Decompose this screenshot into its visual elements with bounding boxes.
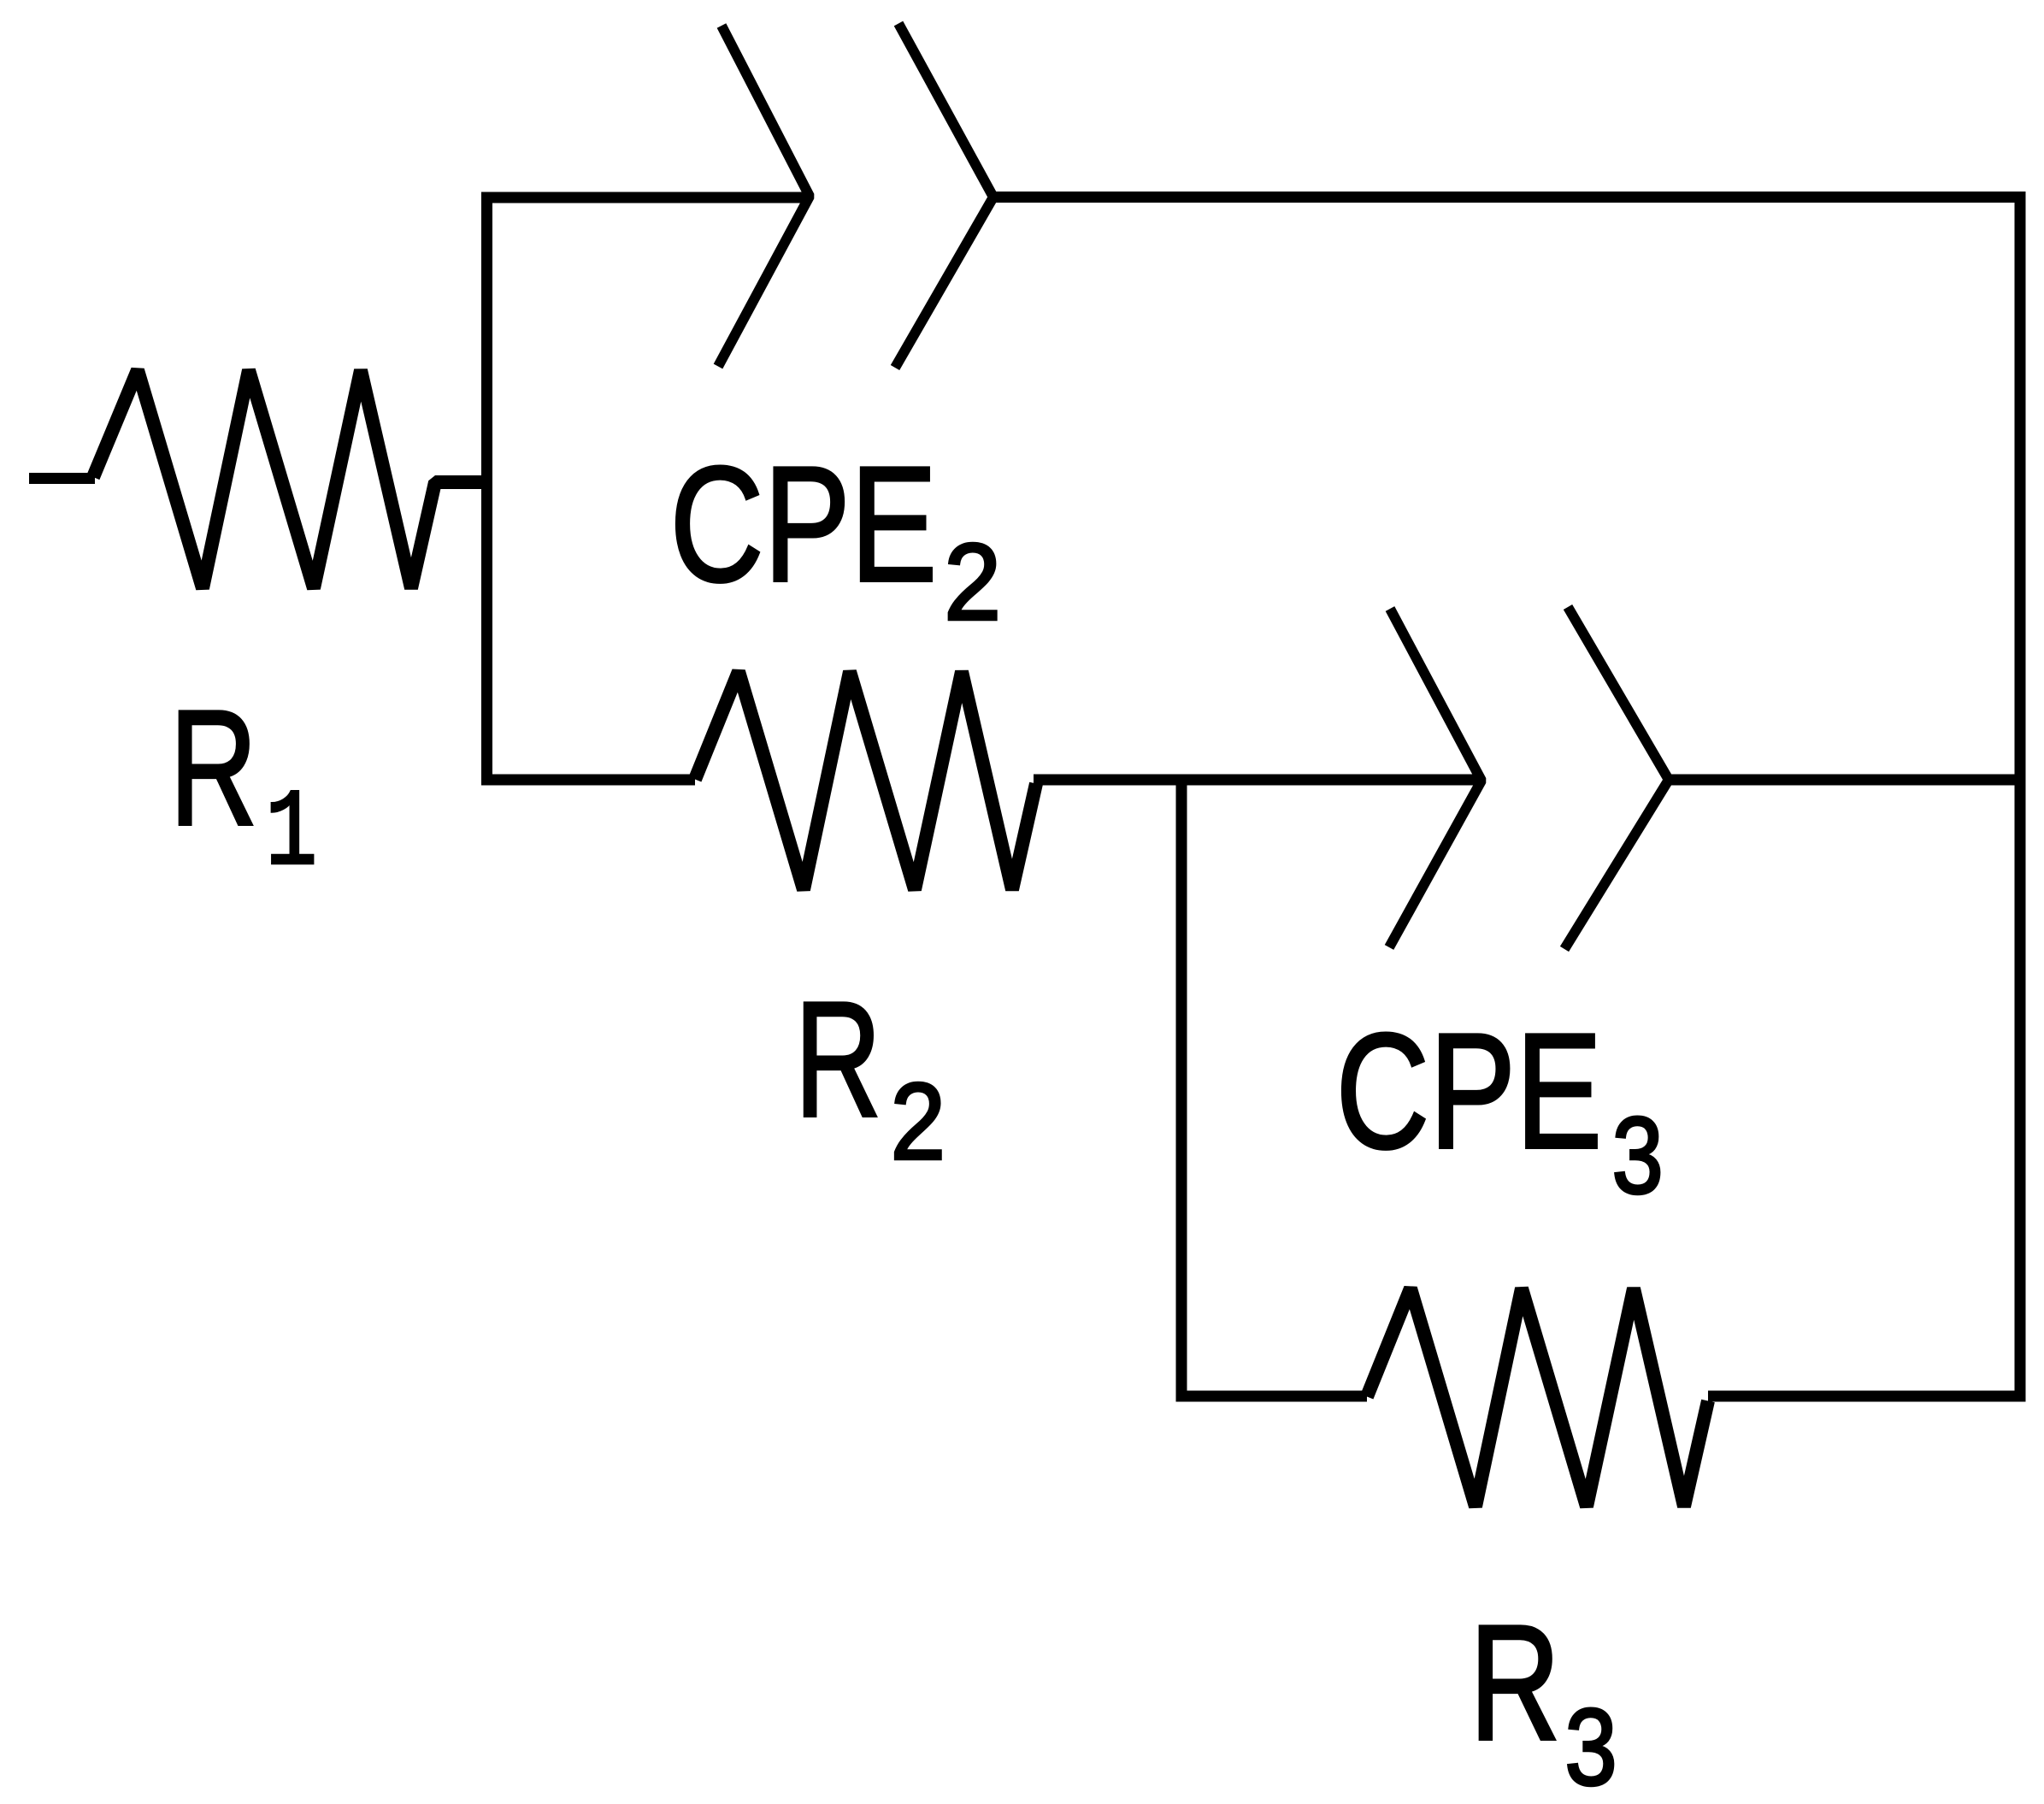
svg-text:CPE: CPE — [1336, 999, 1602, 1182]
svg-text:3: 3 — [1612, 1094, 1664, 1216]
svg-text:CPE: CPE — [670, 432, 938, 616]
svg-text:2: 2 — [944, 522, 1001, 643]
svg-text:2: 2 — [891, 1060, 945, 1182]
svg-text:R: R — [795, 968, 882, 1151]
svg-text:R: R — [169, 675, 257, 859]
svg-text:1: 1 — [266, 774, 317, 896]
svg-text:R: R — [1470, 1591, 1560, 1774]
svg-text:3: 3 — [1565, 1687, 1617, 1804]
